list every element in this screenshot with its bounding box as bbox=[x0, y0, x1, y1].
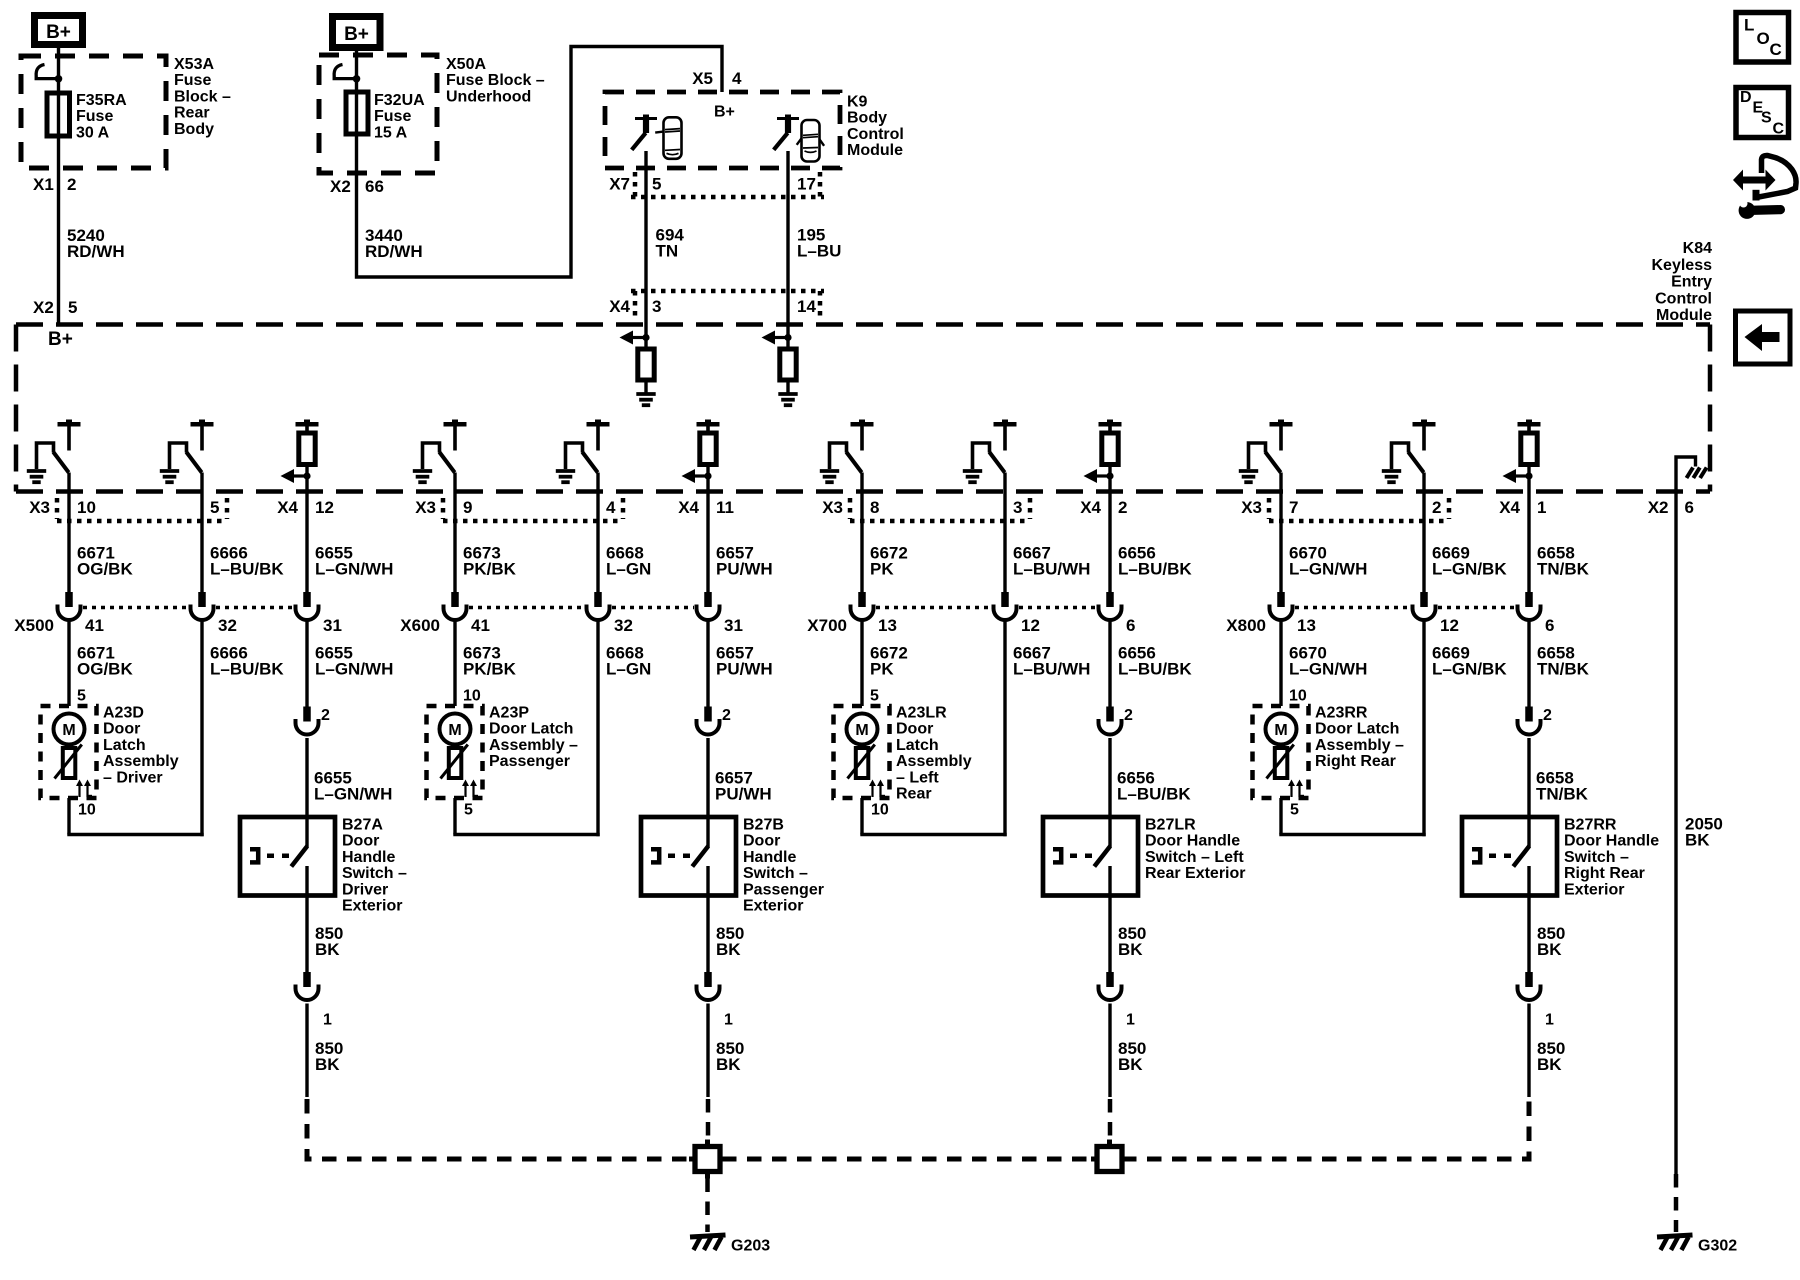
door latch assembly A23LR dashed box bbox=[834, 706, 890, 798]
wire 6673 PK/BK (passenger A) bbox=[453, 473, 456, 593]
in-line connector pin 2 on handle switch wire (right rear) bbox=[1518, 707, 1553, 735]
svg-text:Door: Door bbox=[342, 833, 379, 850]
wire label 6672 PK (upper) bbox=[870, 544, 908, 579]
svg-text:1: 1 bbox=[724, 1012, 733, 1029]
svg-text:4: 4 bbox=[606, 498, 616, 517]
svg-text:Fuse: Fuse bbox=[374, 108, 411, 125]
wire label 6670 L–GN/WH (upper) bbox=[1289, 544, 1367, 579]
wire segment connector to handle switch (left rear) bbox=[1108, 738, 1111, 817]
label B27B door handle switch bbox=[743, 817, 824, 915]
door handle switch B27B box bbox=[641, 817, 736, 896]
svg-text:Underhood: Underhood bbox=[446, 88, 531, 105]
svg-text:2: 2 bbox=[67, 175, 76, 194]
svg-text:X50A: X50A bbox=[446, 56, 486, 73]
svg-text:L–BU: L–BU bbox=[797, 242, 841, 261]
svg-text:31: 31 bbox=[724, 616, 743, 635]
in-line connector pin 2 on handle switch wire (driver) bbox=[296, 707, 331, 735]
wire label 850 BK (lower, left rear) bbox=[1118, 1039, 1146, 1074]
svg-text:BK: BK bbox=[1537, 940, 1562, 959]
connector X4 pin 2 (left rear) bbox=[1080, 498, 1127, 517]
svg-text:X600: X600 bbox=[400, 616, 440, 635]
dashed wire from splice to G203 bbox=[705, 1179, 710, 1233]
wire 6669 L–GN/BK (right rear B) bbox=[1422, 473, 1425, 593]
svg-text:Assembly: Assembly bbox=[103, 753, 179, 770]
svg-text:X800: X800 bbox=[1226, 616, 1266, 635]
svg-text:G302: G302 bbox=[1698, 1238, 1737, 1255]
svg-text:11: 11 bbox=[716, 498, 734, 517]
svg-text:5: 5 bbox=[870, 688, 879, 705]
wire 850 BK to ground splice (driver) bbox=[305, 1004, 308, 1098]
DESC navigation box bbox=[1736, 88, 1789, 138]
svg-text:17: 17 bbox=[797, 175, 816, 194]
door handle switch B27LR box bbox=[1043, 817, 1138, 896]
wire label 6668 L–GN (lower) bbox=[606, 644, 651, 679]
svg-text:Module: Module bbox=[1656, 307, 1712, 324]
svg-text:B+: B+ bbox=[48, 329, 73, 350]
svg-text:Right Rear: Right Rear bbox=[1315, 753, 1396, 770]
wire label 6658 TN/BK (lower) bbox=[1537, 644, 1590, 679]
double arrows actuation marks (left rear) bbox=[869, 780, 885, 798]
terminal hook in fuse block 2 bbox=[334, 65, 360, 83]
svg-text:5: 5 bbox=[1290, 802, 1299, 819]
svg-text:10: 10 bbox=[871, 802, 889, 819]
pin 10 label at latch bottom (left rear) bbox=[871, 802, 889, 819]
connector X3 pins 10 and 5 (driver) bbox=[29, 498, 227, 521]
wire segment B down to latch return (driver) bbox=[200, 620, 203, 836]
wire 6666 L–BU/BK (driver B) bbox=[200, 473, 203, 593]
svg-text:X7: X7 bbox=[609, 175, 630, 194]
wire label 6655 L–GN/WH (lower) bbox=[315, 644, 393, 679]
svg-text:BK: BK bbox=[1118, 1055, 1143, 1074]
svg-text:66: 66 bbox=[365, 177, 384, 196]
svg-text:Rear Exterior: Rear Exterior bbox=[1145, 865, 1246, 882]
fuse F32UA 15 A bbox=[346, 92, 368, 134]
connector X5 pin 4 bbox=[692, 69, 742, 88]
wire segment C down (left rear) bbox=[1108, 620, 1111, 707]
svg-text:7: 7 bbox=[1289, 498, 1298, 517]
svg-text:15 A: 15 A bbox=[374, 124, 408, 141]
svg-text:Fuse: Fuse bbox=[174, 72, 211, 89]
internal chassis ground of keyless module (X2 pin 6) bbox=[1676, 457, 1707, 492]
svg-text:Assembly: Assembly bbox=[896, 753, 972, 770]
wire label 195 L-BU bbox=[797, 226, 841, 261]
connector X4 pin 12 (driver) bbox=[277, 498, 334, 517]
svg-text:L–BU/BK: L–BU/BK bbox=[1118, 560, 1192, 579]
car icon 2 with open doors (unlock indicator) bbox=[789, 118, 824, 161]
signal arrow on driver handle input bbox=[281, 469, 311, 483]
wire segment connector to handle switch (passenger) bbox=[706, 738, 709, 817]
wire label 6657 PU/WH (lower) bbox=[716, 644, 773, 679]
svg-text:– Left: – Left bbox=[896, 769, 939, 786]
svg-text:D: D bbox=[1740, 89, 1752, 106]
svg-text:X4: X4 bbox=[1080, 498, 1101, 517]
svg-text:X4: X4 bbox=[678, 498, 699, 517]
wire label 5240 RD/WH bbox=[67, 226, 125, 261]
wire label 6667 L–BU/WH (upper) bbox=[1013, 544, 1090, 579]
wire segment B down to latch return (right rear) bbox=[1422, 620, 1425, 836]
svg-text:L: L bbox=[1744, 16, 1754, 35]
svg-text:BK: BK bbox=[716, 940, 741, 959]
label B27RR door handle switch bbox=[1564, 817, 1659, 899]
latch position sensor (left rear) bbox=[848, 745, 875, 779]
svg-text:X5: X5 bbox=[692, 69, 713, 88]
svg-text:Body: Body bbox=[847, 110, 887, 127]
svg-text:Module: Module bbox=[847, 142, 903, 159]
svg-text:Assembly –: Assembly – bbox=[489, 737, 578, 754]
svg-text:Handle: Handle bbox=[743, 849, 796, 866]
wire 6655 L–GN/WH (driver C) bbox=[305, 465, 308, 593]
wire label 694 TN bbox=[656, 226, 685, 261]
ground splice block (passenger column) bbox=[689, 1140, 726, 1179]
wire segment B down to latch return (left rear) bbox=[1003, 620, 1006, 836]
connector X1 pin 2 bbox=[33, 175, 76, 194]
svg-text:Driver: Driver bbox=[342, 881, 388, 898]
svg-text:41: 41 bbox=[85, 616, 104, 635]
svg-text:BK: BK bbox=[1685, 831, 1710, 850]
svg-text:RD/WH: RD/WH bbox=[67, 242, 125, 261]
svg-text:31: 31 bbox=[323, 616, 342, 635]
svg-text:X4: X4 bbox=[277, 498, 298, 517]
wire label 6671 OG/BK (upper) bbox=[77, 544, 133, 579]
ground G203 bbox=[690, 1235, 770, 1255]
svg-text:Switch –: Switch – bbox=[1564, 849, 1629, 866]
label X50A Fuse Block - Underhood bbox=[446, 56, 545, 105]
svg-text:TN: TN bbox=[656, 242, 679, 261]
latch motor M (left rear) bbox=[847, 714, 878, 745]
label K84 Keyless Entry Control Module bbox=[1652, 240, 1713, 324]
fuse block X50A dashed box bbox=[319, 55, 437, 173]
label F32UA Fuse 15 A bbox=[374, 92, 425, 141]
svg-text:X53A: X53A bbox=[174, 56, 214, 73]
svg-text:Door Latch: Door Latch bbox=[489, 721, 573, 738]
in-line connector pin 1 on ground wire (left rear) bbox=[1099, 972, 1136, 1029]
connector X2 pin 6 bbox=[1648, 498, 1694, 517]
latch motor M (driver) bbox=[54, 714, 85, 745]
label A23LR door latch assembly bbox=[896, 705, 972, 803]
ground G302 bbox=[1657, 1235, 1737, 1255]
label F35RA Fuse 30 A bbox=[76, 92, 127, 141]
wire from B+ feed 1 through fuse F35RA down to keyless module bbox=[57, 48, 60, 323]
svg-text:K84: K84 bbox=[1683, 240, 1712, 257]
wire 850 BK below handle switch (passenger) bbox=[706, 896, 709, 973]
keyless module switch to ground (driver lock sense B) bbox=[160, 420, 214, 483]
svg-text:Door: Door bbox=[743, 833, 780, 850]
svg-text:2: 2 bbox=[1543, 707, 1552, 724]
svg-text:10: 10 bbox=[1289, 688, 1307, 705]
keyless module switch to ground (passenger lock sense B) bbox=[556, 420, 610, 483]
wire label 6666 L–BU/BK (upper) bbox=[210, 544, 284, 579]
latch motor M (right rear) bbox=[1266, 714, 1297, 745]
wire segment to door latch (driver) bbox=[67, 620, 70, 706]
wire label 850 BK (upper, passenger) bbox=[716, 924, 744, 959]
wire elbow latch to return (right rear) bbox=[1279, 798, 1425, 835]
pin 5 label at latch bottom (right rear) bbox=[1290, 802, 1299, 819]
svg-text:8: 8 bbox=[870, 498, 879, 517]
svg-text:6: 6 bbox=[1126, 616, 1135, 635]
svg-text:X3: X3 bbox=[822, 498, 843, 517]
svg-text:L–GN/WH: L–GN/WH bbox=[1289, 660, 1367, 679]
wire label 6656 L–BU/BK (lower) bbox=[1118, 644, 1192, 679]
wire label 2050 BK bbox=[1685, 815, 1723, 850]
svg-text:Exterior: Exterior bbox=[1564, 881, 1624, 898]
svg-text:B27B: B27B bbox=[743, 817, 784, 834]
wire from B+ feed 2 through fuse F32UA over to BCM X5 pin 4 bbox=[357, 47, 723, 278]
svg-text:6: 6 bbox=[1685, 498, 1694, 517]
svg-text:2: 2 bbox=[1432, 498, 1441, 517]
svg-text:L–BU/WH: L–BU/WH bbox=[1013, 560, 1090, 579]
keyless module switch to ground (passenger lock sense A) bbox=[413, 420, 467, 483]
svg-text:Entry: Entry bbox=[1671, 274, 1712, 291]
svg-text:Switch – Left: Switch – Left bbox=[1145, 849, 1244, 866]
svg-text:G203: G203 bbox=[731, 1238, 770, 1255]
power symbol B+ battery feed 1 bbox=[35, 16, 83, 45]
signal arrow on right rear handle input bbox=[1503, 469, 1533, 483]
wire segment connector to handle switch (right rear) bbox=[1527, 738, 1530, 817]
svg-text:Keyless: Keyless bbox=[1652, 257, 1713, 274]
svg-text:X3: X3 bbox=[1241, 498, 1262, 517]
svg-text:1: 1 bbox=[1126, 1012, 1135, 1029]
svg-text:Door Latch: Door Latch bbox=[1315, 721, 1399, 738]
svg-text:L–BU/WH: L–BU/WH bbox=[1013, 660, 1090, 679]
svg-text:L–BU/BK: L–BU/BK bbox=[1117, 785, 1191, 804]
pin 10 label at latch top (passenger) bbox=[463, 688, 481, 705]
wire label 6669 L–GN/BK (upper) bbox=[1432, 544, 1507, 579]
wire 850 BK to ground splice (right rear) bbox=[1527, 1004, 1530, 1098]
svg-text:Latch: Latch bbox=[103, 737, 146, 754]
door latch assembly A23P dashed box bbox=[427, 706, 483, 798]
wire 2050 BK to G302 bbox=[1674, 492, 1677, 1233]
label A23D door latch assembly bbox=[103, 705, 179, 787]
svg-text:Passenger: Passenger bbox=[489, 753, 570, 770]
diagnostic tool icon (arrows and wrench) bbox=[1733, 155, 1796, 218]
wire label 6673 PK/BK (upper) bbox=[463, 544, 517, 579]
wire elbow latch to return (passenger) bbox=[453, 798, 599, 835]
signal arrow on left rear handle input bbox=[1084, 469, 1114, 483]
svg-text:Right Rear: Right Rear bbox=[1564, 865, 1645, 882]
wire label 6669 L–GN/BK (lower) bbox=[1432, 644, 1507, 679]
wire 6657 PU/WH (passenger C) bbox=[706, 465, 709, 593]
in-line connector X700 pins 13 12 6 bbox=[807, 592, 1135, 635]
svg-text:Exterior: Exterior bbox=[342, 898, 402, 915]
signal arrow on 195 input at keyless module bbox=[762, 331, 792, 345]
LOC navigation box bbox=[1736, 13, 1789, 63]
svg-text:Rear: Rear bbox=[896, 786, 932, 803]
in-line connector pin 2 on handle switch wire (left rear) bbox=[1099, 707, 1134, 735]
svg-text:C: C bbox=[1773, 121, 1785, 138]
svg-text:13: 13 bbox=[878, 616, 897, 635]
wire 850 BK below handle switch (driver) bbox=[305, 896, 308, 973]
in-line connector pin 1 on ground wire (driver) bbox=[296, 972, 333, 1029]
svg-text:TN/BK: TN/BK bbox=[1536, 785, 1589, 804]
svg-text:Fuse Block –: Fuse Block – bbox=[446, 72, 545, 89]
svg-text:12: 12 bbox=[1021, 616, 1040, 635]
svg-text:PK/BK: PK/BK bbox=[463, 560, 517, 579]
svg-text:Control: Control bbox=[847, 126, 904, 143]
wire 694 TN from BCM switch 1 bbox=[644, 151, 647, 349]
svg-text:2: 2 bbox=[722, 707, 731, 724]
connector X7 pins 5 and 17 (BCM) bbox=[609, 172, 824, 197]
svg-text:A23RR: A23RR bbox=[1315, 705, 1368, 722]
svg-text:3: 3 bbox=[652, 297, 661, 316]
svg-text:9: 9 bbox=[463, 498, 472, 517]
door handle switch B27RR box bbox=[1462, 817, 1557, 896]
svg-text:B27RR: B27RR bbox=[1564, 817, 1617, 834]
wire label 850 BK (lower, driver) bbox=[315, 1039, 343, 1074]
wire label 6667 L–BU/WH (lower) bbox=[1013, 644, 1090, 679]
latch position sensor (driver) bbox=[55, 745, 82, 779]
svg-text:L–GN/WH: L–GN/WH bbox=[315, 660, 393, 679]
svg-text:13: 13 bbox=[1297, 616, 1316, 635]
label B27A door handle switch bbox=[342, 817, 407, 915]
fuse F35RA 30 A bbox=[47, 93, 70, 136]
svg-text:5: 5 bbox=[68, 298, 77, 317]
svg-text:41: 41 bbox=[471, 616, 490, 635]
wire label 6666 L–BU/BK (lower) bbox=[210, 644, 284, 679]
wire segment C down (right rear) bbox=[1527, 620, 1530, 707]
svg-text:L–GN/WH: L–GN/WH bbox=[314, 785, 392, 804]
svg-text:4: 4 bbox=[732, 69, 742, 88]
wire label 6671 OG/BK (lower) bbox=[77, 644, 133, 679]
svg-text:O: O bbox=[1757, 29, 1770, 48]
svg-text:L–BU/BK: L–BU/BK bbox=[210, 660, 284, 679]
svg-text:Door: Door bbox=[103, 721, 140, 738]
svg-text:OG/BK: OG/BK bbox=[77, 660, 133, 679]
label K9 Body Control Module bbox=[847, 94, 904, 160]
body control module K9 dashed box bbox=[605, 92, 840, 168]
connector X2 pin 5 bbox=[33, 298, 77, 317]
net label B+ inside BCM bbox=[714, 104, 735, 121]
keyless entry control module K84 dashed box bbox=[16, 325, 1710, 492]
dashed ground distribution bus to G203 bbox=[307, 1099, 1529, 1159]
internal resistor on 195 input bbox=[780, 349, 796, 380]
svg-text:1: 1 bbox=[1537, 498, 1546, 517]
label A23P door latch assembly bbox=[489, 705, 578, 771]
wire 6667 L–BU/WH (left rear B) bbox=[1003, 473, 1006, 593]
svg-text:C: C bbox=[1770, 40, 1782, 59]
svg-text:L–BU/BK: L–BU/BK bbox=[210, 560, 284, 579]
svg-text:PU/WH: PU/WH bbox=[715, 785, 772, 804]
label A23RR door latch assembly bbox=[1315, 705, 1404, 771]
label X53A Fuse Block - Rear Body bbox=[174, 56, 231, 138]
svg-text:Rear: Rear bbox=[174, 105, 210, 122]
svg-text:10: 10 bbox=[77, 498, 96, 517]
wire label 6656 L–BU/BK (at handle switch) bbox=[1117, 769, 1191, 804]
svg-text:PK: PK bbox=[870, 660, 894, 679]
svg-text:1: 1 bbox=[1545, 1012, 1554, 1029]
svg-text:X1: X1 bbox=[33, 175, 54, 194]
wire label 850 BK (upper, left rear) bbox=[1118, 924, 1146, 959]
wire label 6655 L–GN/WH (upper) bbox=[315, 544, 393, 579]
keyless module switch to ground (left rear lock sense B) bbox=[963, 420, 1017, 483]
pin 5 label at latch top (driver) bbox=[77, 688, 86, 705]
svg-text:X2: X2 bbox=[33, 298, 54, 317]
keyless module contact and resistor (right rear handle input) bbox=[1518, 420, 1541, 465]
svg-text:– Driver: – Driver bbox=[103, 769, 163, 786]
svg-text:L–GN/BK: L–GN/BK bbox=[1432, 660, 1507, 679]
svg-text:12: 12 bbox=[315, 498, 334, 517]
svg-text:X4: X4 bbox=[1499, 498, 1520, 517]
svg-text:M: M bbox=[62, 722, 75, 739]
label B27LR door handle switch bbox=[1145, 817, 1246, 883]
svg-text:Latch: Latch bbox=[896, 737, 939, 754]
svg-text:BK: BK bbox=[1537, 1055, 1562, 1074]
wire segment C down (driver) bbox=[305, 620, 308, 707]
svg-text:Switch –: Switch – bbox=[743, 865, 808, 882]
wire label 850 BK (lower, passenger) bbox=[716, 1039, 744, 1074]
BCM driver-output switch 2 (door unlock) bbox=[774, 115, 799, 150]
wire elbow latch to return (left rear) bbox=[860, 798, 1006, 835]
keyless module switch to ground (right rear lock sense A) bbox=[1239, 420, 1293, 483]
wire 850 BK below handle switch (left rear) bbox=[1108, 896, 1111, 973]
svg-text:6: 6 bbox=[1545, 616, 1554, 635]
terminal hook in fuse block 1 bbox=[36, 65, 62, 83]
svg-text:10: 10 bbox=[463, 688, 481, 705]
svg-text:TN/BK: TN/BK bbox=[1537, 560, 1590, 579]
wire segment B down to latch return (passenger) bbox=[596, 620, 599, 836]
connector X3 pins 7 and 2 (right rear) bbox=[1241, 498, 1449, 521]
svg-text:M: M bbox=[448, 722, 461, 739]
svg-text:F35RA: F35RA bbox=[76, 92, 127, 109]
net label B+ inside keyless module bbox=[48, 329, 73, 350]
back arrow navigation box bbox=[1736, 311, 1791, 364]
keyless module contact and resistor (driver handle input) bbox=[296, 420, 319, 465]
svg-text:X3: X3 bbox=[29, 498, 50, 517]
wire segment C down (passenger) bbox=[706, 620, 709, 707]
svg-text:2: 2 bbox=[1124, 707, 1133, 724]
wire elbow latch to return (driver) bbox=[67, 798, 203, 835]
svg-text:5: 5 bbox=[210, 498, 219, 517]
connector X4 pins 3 and 14 (keyless module top) bbox=[609, 291, 824, 316]
svg-text:Assembly –: Assembly – bbox=[1315, 737, 1404, 754]
svg-text:L–GN: L–GN bbox=[606, 560, 651, 579]
connector X2 pin 66 bbox=[330, 177, 384, 196]
svg-text:2: 2 bbox=[1118, 498, 1127, 517]
svg-text:S: S bbox=[1761, 110, 1772, 127]
car icon 1 (lock indicator) bbox=[655, 117, 681, 159]
double arrows actuation marks (passenger) bbox=[462, 780, 478, 798]
connector X4 pin 1 (right rear) bbox=[1499, 498, 1546, 517]
svg-text:Exterior: Exterior bbox=[743, 898, 803, 915]
in-line connector pin 1 on ground wire (right rear) bbox=[1518, 972, 1555, 1029]
keyless module contact and resistor (passenger handle input) bbox=[697, 420, 720, 465]
svg-text:TN/BK: TN/BK bbox=[1537, 660, 1590, 679]
svg-text:BK: BK bbox=[315, 940, 340, 959]
svg-text:BK: BK bbox=[716, 1055, 741, 1074]
svg-text:A23LR: A23LR bbox=[896, 705, 947, 722]
wire label 6657 PU/WH (at handle switch) bbox=[715, 769, 772, 804]
double arrows actuation marks (driver) bbox=[76, 780, 92, 798]
keyless module switch to ground (right rear lock sense B) bbox=[1382, 420, 1436, 483]
svg-text:A23P: A23P bbox=[489, 705, 529, 722]
svg-text:X2: X2 bbox=[1648, 498, 1669, 517]
svg-text:Passenger: Passenger bbox=[743, 881, 824, 898]
svg-text:Door Handle: Door Handle bbox=[1564, 833, 1659, 850]
svg-text:32: 32 bbox=[218, 616, 237, 635]
latch motor M (passenger) bbox=[440, 714, 471, 745]
wire label 6673 PK/BK (lower) bbox=[463, 644, 517, 679]
ground symbol below resistor (694 input) bbox=[636, 380, 655, 405]
latch position sensor (passenger) bbox=[441, 745, 468, 779]
svg-text:B+: B+ bbox=[46, 22, 71, 43]
in-line connector X500 pins 41 32 31 bbox=[14, 592, 342, 635]
connector X3 pins 9 and 4 (passenger) bbox=[415, 498, 623, 521]
double arrows actuation marks (right rear) bbox=[1288, 780, 1304, 798]
svg-text:Control: Control bbox=[1655, 290, 1712, 307]
ground splice block (left rear column) bbox=[1091, 1140, 1128, 1172]
svg-text:5: 5 bbox=[464, 802, 473, 819]
svg-text:Block –: Block – bbox=[174, 88, 231, 105]
svg-text:X4: X4 bbox=[609, 297, 630, 316]
